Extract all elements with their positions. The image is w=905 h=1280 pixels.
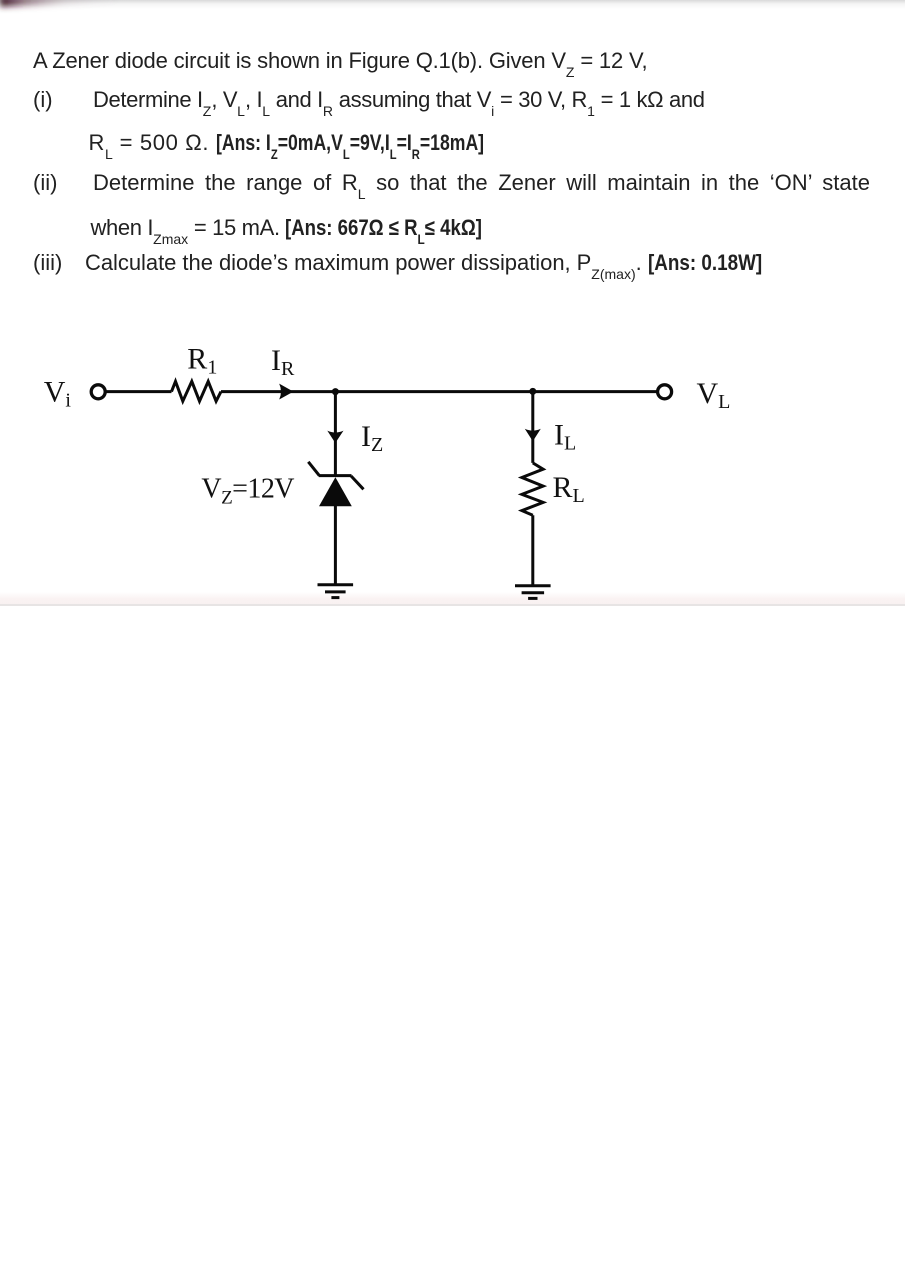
wire R1 to node A (221, 390, 335, 393)
terminal Vi (91, 385, 105, 399)
node A junction dot (332, 388, 339, 395)
current arrow IR (279, 384, 293, 400)
current arrow IZ (327, 431, 343, 443)
svg-text:RL: RL (553, 471, 585, 507)
svg-text:Vi: Vi (44, 376, 72, 412)
terminal VL (658, 385, 672, 399)
node B junction dot (529, 388, 536, 395)
page divider line (0, 604, 905, 606)
wire node B to VL terminal (533, 390, 658, 393)
circuit schematic (0, 0, 905, 620)
wire node A down to zener (334, 392, 337, 476)
resistor RL (522, 463, 543, 515)
wire RL to ground (531, 515, 534, 585)
wire Vi to R1 (106, 390, 172, 393)
svg-text:VZ=12V: VZ=12V (201, 474, 294, 509)
maroon wedge top-left (0, 0, 300, 24)
zener diode anode triangle (319, 477, 352, 506)
ground (zener branch) (318, 585, 354, 598)
svg-text:VL: VL (697, 377, 731, 413)
current arrow IL (525, 429, 541, 441)
svg-text:R1: R1 (187, 343, 217, 379)
svg-text:IZ: IZ (361, 420, 383, 456)
ground (load branch) (515, 586, 551, 599)
top edge gray gradient (0, 0, 905, 9)
wire zener to ground (334, 506, 337, 585)
resistor R1 (172, 381, 222, 401)
text block (33, 50, 647, 72)
svg-text:IL: IL (554, 419, 576, 455)
svg-text:IR: IR (271, 344, 295, 380)
zener diode cathode bar with bent ends (308, 462, 363, 490)
wire node A to node B (335, 390, 532, 393)
wire node B down to RL (531, 392, 534, 463)
